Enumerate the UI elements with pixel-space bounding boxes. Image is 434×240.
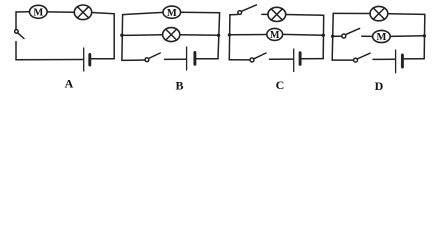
wire bottom switch-to-battery D: [373, 58, 395, 60]
wire right vertical D: [423, 14, 426, 58]
svg-text:C: C: [276, 78, 285, 92]
wire right vertical B: [218, 13, 220, 59]
wire middle-right segment B: [180, 34, 219, 37]
node right junction C: [322, 34, 325, 37]
svg-text:M: M: [167, 8, 177, 19]
switch S (B): [145, 58, 149, 62]
wire bottom-right C: [302, 58, 324, 60]
wire bottom-left D: [332, 59, 353, 61]
circuit A: [15, 5, 115, 71]
wire left vertical D: [332, 13, 333, 60]
svg-text:M: M: [33, 8, 43, 19]
wire right vertical C: [322, 15, 325, 58]
circuit C: [228, 5, 325, 72]
svg-text:M: M: [376, 32, 386, 43]
switch S (A): [15, 30, 19, 34]
motor M (B): [163, 6, 181, 18]
circuit D: [331, 6, 426, 72]
wire bottom switch-to-battery B: [165, 58, 187, 60]
wire left vertical C: [228, 15, 231, 60]
lamp (D): [370, 6, 388, 20]
wire bottom switch-to-battery C: [270, 58, 294, 60]
circuit B: [120, 6, 220, 70]
switch S1 (C): [238, 11, 242, 15]
battery (A): [83, 48, 85, 71]
wire bottom-left B: [122, 59, 145, 61]
wire left vertical B: [121, 15, 124, 61]
wire middle-left segment C: [230, 34, 267, 36]
motor M (A): [30, 5, 48, 18]
wire middle-left stub D: [333, 35, 342, 37]
svg-text:D: D: [375, 79, 384, 93]
wire bottom-right D: [404, 58, 424, 60]
battery (C): [293, 49, 295, 72]
wire switch-to-motor D: [362, 35, 373, 37]
switch S2 (C): [250, 58, 254, 62]
lamp (B): [163, 28, 180, 42]
svg-text:A: A: [65, 77, 74, 91]
lamp (C): [268, 7, 286, 21]
wire bottom-right B: [196, 58, 218, 60]
battery (B): [186, 47, 188, 70]
wire top-right segment B: [181, 11, 220, 14]
wire top-right segment A: [92, 13, 115, 14]
wire left vertical lower A: [15, 42, 17, 60]
wire top-left segment B: [123, 12, 163, 14]
svg-text:M: M: [270, 30, 280, 41]
wire between motor and lamp A: [47, 11, 74, 13]
wire bottom A: [16, 59, 83, 61]
lamp (A): [74, 5, 91, 20]
wire bottom-left C: [229, 59, 250, 61]
wire top-right segment D: [388, 13, 425, 16]
node right junction D: [423, 34, 426, 37]
switch S2 (D): [354, 58, 358, 62]
switch S1 (D): [342, 34, 346, 38]
wire middle-left segment B: [122, 34, 163, 37]
wire middle-right segment D: [390, 35, 424, 38]
wire top-left segment D: [333, 12, 370, 14]
node right junction B: [217, 34, 220, 37]
motor M (D): [373, 30, 391, 42]
wire bottom-right A: [91, 58, 114, 60]
wire left vertical upper A: [15, 12, 17, 30]
motor M (C): [267, 28, 283, 40]
node left junction D: [331, 35, 334, 38]
battery (D): [395, 50, 397, 73]
wire switch-to-lamp C: [262, 13, 268, 15]
node left junction C: [228, 33, 231, 36]
wire top-left segment A: [16, 11, 30, 13]
wire top-right segment C: [286, 14, 324, 17]
wire top-left stub C: [230, 14, 238, 16]
wire right vertical A: [113, 14, 115, 59]
node left junction B: [120, 34, 123, 37]
wire middle-right segment C: [283, 33, 324, 36]
svg-text:B: B: [175, 79, 183, 93]
